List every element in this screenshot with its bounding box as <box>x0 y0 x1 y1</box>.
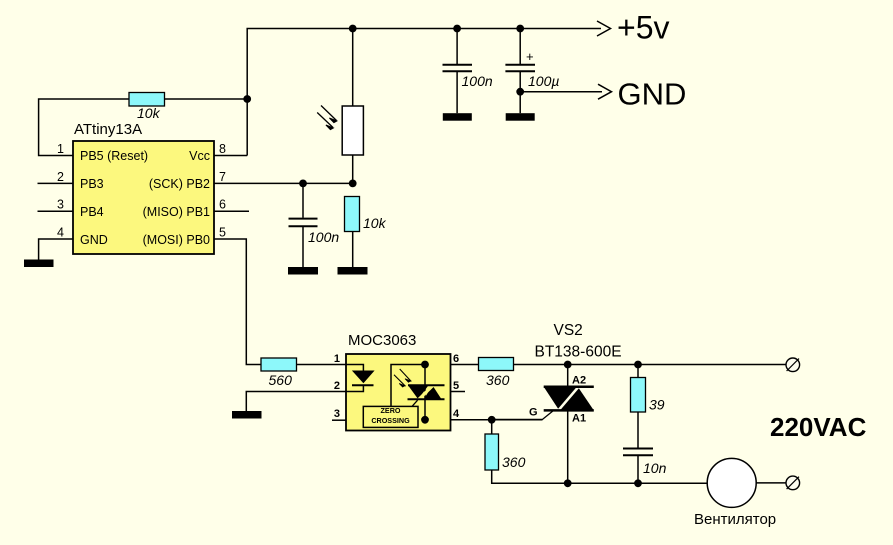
svg-text:5: 5 <box>219 226 226 240</box>
svg-text:100µ: 100µ <box>528 73 559 89</box>
svg-text:10k: 10k <box>363 215 387 231</box>
terminal X2 bottom <box>786 476 800 490</box>
resistor R5 360 vertical <box>485 420 707 484</box>
svg-text:2: 2 <box>334 380 340 392</box>
photoresistor LDR <box>317 29 363 184</box>
node triac top <box>564 361 572 369</box>
wire top rail +5v <box>247 29 601 156</box>
resistor R1 10k horizontal <box>129 93 247 122</box>
ground under C1 <box>443 113 472 121</box>
fan M1 <box>694 458 786 528</box>
MOC internal phototriac <box>408 365 445 420</box>
node R5 top <box>488 416 496 424</box>
node C1 top <box>453 25 461 33</box>
wire MOC pin6 to R4 <box>451 364 479 366</box>
MOC pin3 stub <box>332 419 346 421</box>
resistor R4 360 <box>479 358 787 389</box>
svg-text:220VAC: 220VAC <box>770 412 867 442</box>
node MOC pin6 <box>421 361 429 369</box>
svg-text:+: + <box>526 49 534 64</box>
svg-text:Vcc: Vcc <box>189 149 210 163</box>
svg-text:ZERO: ZERO <box>381 406 401 415</box>
GND arrowhead <box>598 84 612 99</box>
node LDR/R2 <box>349 180 357 188</box>
svg-text:PB5 (Reset): PB5 (Reset) <box>80 149 148 163</box>
node LDR top rail <box>349 25 357 33</box>
wire pin4 to ground <box>39 239 73 260</box>
svg-text:CROSSING: CROSSING <box>371 416 410 425</box>
svg-text:GND: GND <box>618 77 687 112</box>
ground MOC pin2 <box>232 411 262 419</box>
svg-text:5: 5 <box>453 380 459 392</box>
svg-text:A1: A1 <box>572 413 586 425</box>
svg-text:6: 6 <box>453 353 459 365</box>
wire GND rail <box>520 91 602 93</box>
capacitor C2 100n <box>289 183 340 267</box>
node triac bottom <box>564 479 572 487</box>
node C2 tap <box>299 180 307 188</box>
+5v arrowhead <box>597 21 611 36</box>
ground under R2 <box>338 267 368 275</box>
svg-text:6: 6 <box>219 198 226 212</box>
wire pin5 PB0 down to R3 <box>214 239 261 365</box>
svg-text:7: 7 <box>219 170 226 184</box>
resistor R3 560 <box>261 358 346 388</box>
svg-text:(MOSI) PB0: (MOSI) PB0 <box>143 233 210 247</box>
MOC internal zero-cross wiring <box>391 365 425 407</box>
wire pin6 stub <box>214 210 249 212</box>
capacitor C3 100u electrolytic <box>505 29 559 114</box>
svg-text:360: 360 <box>502 454 526 470</box>
svg-text:A2: A2 <box>572 375 586 387</box>
MOC light arrows <box>394 369 411 387</box>
svg-text:4: 4 <box>57 226 64 240</box>
node R6 top <box>634 361 642 369</box>
svg-text:G: G <box>529 407 538 419</box>
optocoupler U2 MOC3063 <box>346 332 451 431</box>
svg-text:GND: GND <box>80 233 108 247</box>
svg-text:1: 1 <box>334 353 340 365</box>
terminal X1 top <box>786 358 800 372</box>
svg-text:PB4: PB4 <box>80 205 104 219</box>
wire pin3 stub <box>38 210 74 212</box>
resistor R6 39 <box>631 365 665 448</box>
svg-text:2: 2 <box>57 170 64 184</box>
resistor R2 10k vertical <box>345 197 387 268</box>
svg-text:39: 39 <box>649 397 665 413</box>
svg-text:ATtiny13A: ATtiny13A <box>74 121 142 138</box>
svg-text:100n: 100n <box>308 229 339 245</box>
svg-text:VS2: VS2 <box>554 322 583 339</box>
MOC internal LED <box>346 365 374 392</box>
capacitor C1 100n top <box>443 29 493 114</box>
MOC zero crossing box <box>363 406 418 428</box>
svg-text:560: 560 <box>269 372 293 388</box>
svg-text:+5v: +5v <box>617 10 669 46</box>
capacitor C4 10n <box>623 449 667 484</box>
node junction R1/Vcc <box>243 95 251 103</box>
svg-text:10k: 10k <box>137 105 161 121</box>
wire pin8 Vcc <box>214 155 247 157</box>
svg-text:MOC3063: MOC3063 <box>348 332 416 349</box>
wire pin2 stub <box>38 182 74 184</box>
MOC pin numbers <box>334 353 460 420</box>
node MOC pin4 <box>421 416 429 424</box>
node GND tap <box>516 88 524 96</box>
svg-text:4: 4 <box>453 408 460 420</box>
IC U1 ATtiny13A <box>73 121 214 254</box>
svg-text:1: 1 <box>57 142 64 156</box>
wire MOC pin2 to ground <box>246 392 346 412</box>
wire pin1 to resistor R1 <box>39 99 129 156</box>
ground under C3 <box>506 113 535 121</box>
pin numbers U1 <box>57 142 226 240</box>
svg-text:10n: 10n <box>643 460 667 476</box>
svg-text:PB3: PB3 <box>80 177 104 191</box>
wire MOC pin4 <box>451 419 543 421</box>
ground under C2 <box>288 267 318 275</box>
node C3 top <box>516 25 524 33</box>
wire pin7 PB2 <box>214 182 353 184</box>
triac VS2 <box>492 365 594 484</box>
svg-text:(SCK) PB2: (SCK) PB2 <box>149 177 210 191</box>
svg-text:Вентилятор: Вентилятор <box>694 511 776 528</box>
MOC pin5 stub <box>451 391 466 393</box>
node C4 bottom <box>634 479 642 487</box>
svg-text:8: 8 <box>219 142 226 156</box>
ground under pin4 <box>24 260 54 268</box>
svg-text:360: 360 <box>486 372 510 388</box>
svg-text:(MISO) PB1: (MISO) PB1 <box>143 205 210 219</box>
svg-text:3: 3 <box>57 198 64 212</box>
svg-text:BT138-600E: BT138-600E <box>535 344 622 361</box>
svg-text:3: 3 <box>334 408 340 420</box>
svg-text:100n: 100n <box>462 73 493 89</box>
